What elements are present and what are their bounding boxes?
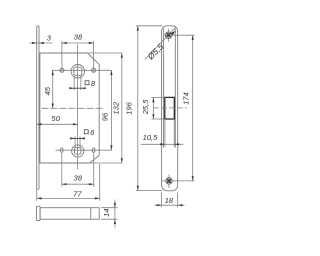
bottom view inner edge line xyxy=(90,208,92,220)
dim 96 arrows xyxy=(110,70,112,75)
bottom hole centerlines xyxy=(162,180,195,182)
dim sq8 ext xyxy=(73,76,75,91)
dim sq6 arrows xyxy=(70,137,75,139)
dim 132 arrows xyxy=(121,53,123,58)
dim 174 arrows xyxy=(192,35,194,40)
dim sq8 line xyxy=(69,87,84,89)
dim 18 ext xyxy=(161,193,163,208)
lower follower circle xyxy=(72,145,84,157)
dim 77 ext xyxy=(36,190,38,201)
dim 14 arrows xyxy=(114,203,116,208)
svg-text:174: 174 xyxy=(181,92,190,105)
dim 196 arrows xyxy=(137,26,139,31)
upper follower circle xyxy=(71,65,84,78)
dim 50 arrows xyxy=(37,123,42,125)
dim 45 line xyxy=(52,70,54,108)
dim 77 line xyxy=(37,197,100,199)
upper screw hole left xyxy=(60,68,64,72)
lower screw slot right xyxy=(92,148,95,152)
dim 196 ext xyxy=(136,25,163,27)
ext lines top 38 xyxy=(61,41,63,72)
dim 174 line xyxy=(192,35,194,181)
svg-text:38: 38 xyxy=(74,32,83,41)
svg-text:10,5: 10,5 xyxy=(143,133,159,142)
dim 10,5 ext xyxy=(164,120,166,147)
dim 25,5 arrows xyxy=(152,97,154,102)
bottom view faceplate cap xyxy=(37,206,41,220)
latch dashed centerline xyxy=(153,107,187,109)
dim 50 line xyxy=(37,123,78,125)
svg-text:132: 132 xyxy=(111,101,120,114)
upper follower square hole xyxy=(74,67,82,75)
lower holes centerline xyxy=(56,149,112,151)
svg-text:25,5: 25,5 xyxy=(141,99,150,116)
dim 38 top arrows xyxy=(62,42,67,44)
case hidden edge right xyxy=(174,29,176,148)
dia 5,5 leader xyxy=(145,27,176,59)
svg-text:50: 50 xyxy=(51,114,60,123)
top hole hatch xyxy=(167,33,171,37)
dia 5,5 leader arrow xyxy=(171,31,176,36)
dim sq6 line xyxy=(70,137,85,139)
svg-text:77: 77 xyxy=(73,189,82,198)
top screw hole outer xyxy=(165,32,172,39)
vertical centerline lock axis xyxy=(77,45,79,170)
dim 45 arrows xyxy=(52,70,54,75)
top hole centerlines xyxy=(164,34,195,36)
dim 196 line xyxy=(137,26,139,191)
latch opening rectangle xyxy=(165,97,175,119)
dim 10,5 arrows xyxy=(160,143,165,145)
dim sq6 ext xyxy=(74,136,76,148)
faceplate plate outline xyxy=(162,26,178,191)
dim 38 bottom arrows xyxy=(62,183,67,185)
dim 18 line xyxy=(155,204,185,206)
svg-text:96: 96 xyxy=(101,112,110,121)
dim 14 line xyxy=(114,200,116,228)
dim 132 ext xyxy=(87,52,122,54)
lower screw slot left xyxy=(61,148,64,152)
dim 3 arrows xyxy=(32,42,37,44)
svg-text:38: 38 xyxy=(73,174,82,183)
label sq6 xyxy=(84,130,88,134)
bottom screw hole outer xyxy=(166,178,173,185)
dim 14 ext xyxy=(101,207,117,209)
top screw hole inner xyxy=(167,34,170,37)
dim 77 arrows xyxy=(37,197,42,199)
dim 132 line xyxy=(121,53,123,163)
case hidden edge left xyxy=(163,29,165,148)
dim 25,5 ext xyxy=(151,96,164,98)
handle height dashed centerline xyxy=(42,107,105,109)
upper holes centerline xyxy=(52,69,112,71)
svg-text:45: 45 xyxy=(43,86,52,95)
bottom screw hole inner xyxy=(167,179,170,182)
dim sq8 arrows xyxy=(69,87,74,89)
svg-text:196: 196 xyxy=(124,101,133,114)
faceplate strip (edge view) xyxy=(37,26,39,190)
svg-text:14: 14 xyxy=(102,209,111,217)
bottom view case bar xyxy=(40,208,99,220)
svg-text:18: 18 xyxy=(165,196,174,205)
lock body outline xyxy=(40,53,99,163)
dim 38 bottom ext xyxy=(61,153,63,187)
dim 3/38 line xyxy=(30,42,53,44)
dim 38 bottom line xyxy=(62,183,94,185)
bottom hole hatch xyxy=(167,179,171,183)
lower follower square hole xyxy=(75,148,81,154)
dim 96 line xyxy=(110,70,112,150)
dim 10,5 line xyxy=(141,143,184,145)
label sq8 xyxy=(85,81,89,85)
upper screw hole right xyxy=(92,68,96,72)
dim 18 arrows xyxy=(157,204,162,206)
dim 25,5 line xyxy=(152,97,154,119)
